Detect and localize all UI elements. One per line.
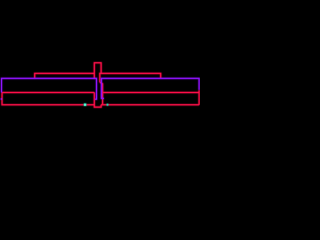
- red top conductor profile: left segment with end step: [35, 73, 95, 78]
- red right edge wall: [198, 90, 200, 105]
- red center right inner wall: [100, 82, 103, 105]
- marker dot B: [107, 104, 109, 106]
- red mid conductor line: right span: [103, 92, 200, 94]
- red top conductor profile: center tab (gate bump): [94, 63, 101, 79]
- red center via trench: [94, 93, 101, 108]
- red top conductor profile: right segment with hanging wall: [100, 73, 161, 82]
- purple left edge tick: [0, 98, 2, 100]
- red mid conductor line: left span: [2, 92, 94, 94]
- marker dot A: [84, 103, 87, 106]
- purple liner layer: left span with down legs: [2, 78, 97, 99]
- red bottom conductor: left edge and bottom-left span: [2, 93, 94, 105]
- red bottom conductor: right span: [101, 104, 199, 106]
- purple liner layer: right span with down legs: [101, 78, 199, 98]
